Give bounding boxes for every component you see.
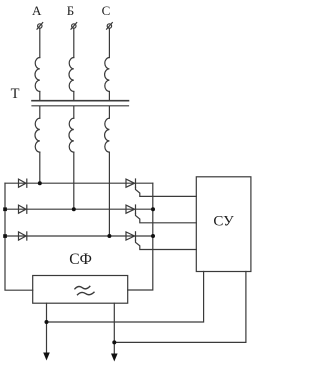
filter symbol inside СФ <box>75 286 94 294</box>
node output right <box>112 340 116 344</box>
control unit block СУ <box>196 177 251 272</box>
wire primary winding 2 to core <box>73 92 75 101</box>
transformer core <box>32 101 129 106</box>
wire core to secondary winding 1 <box>39 106 41 118</box>
node wire2-line2 <box>72 207 76 211</box>
thyristor VS2 <box>126 205 136 213</box>
wire core to secondary winding 2 <box>73 106 75 118</box>
gate wire VS3 <box>136 240 197 249</box>
node output left <box>45 320 49 324</box>
node wire1-line1 <box>38 181 42 185</box>
svg-text:Б: Б <box>67 3 74 18</box>
wire core to secondary winding 3 <box>108 106 110 118</box>
wire terminal A to primary winding 1 <box>39 28 41 57</box>
wire terminal Б to primary winding 2 <box>73 28 75 57</box>
wire СУ output left <box>47 272 204 323</box>
svg-text:С: С <box>102 3 111 18</box>
gate wire VS1 <box>136 187 197 196</box>
transformer T secondary winding 3 <box>105 118 110 152</box>
svg-text:СУ: СУ <box>213 214 234 230</box>
wire secondary 1 down to line 1 <box>39 152 41 183</box>
node wire3-line3 <box>107 234 111 238</box>
svg-text:А: А <box>32 3 42 18</box>
transformer T secondary winding 1 <box>35 118 40 152</box>
wire secondary 2 down to line 2 <box>73 152 75 209</box>
svg-text:Т: Т <box>11 86 20 102</box>
terminal Б <box>71 23 77 30</box>
node left bus line2 <box>3 207 7 211</box>
transformer T primary winding 2 <box>69 58 74 92</box>
wire terminal С to primary winding 3 <box>108 28 110 57</box>
wire СФ output right <box>113 303 115 354</box>
left anode bus wire <box>5 183 33 290</box>
output arrow right <box>111 354 118 362</box>
wire primary winding 3 to core <box>108 92 110 101</box>
wire phase line 2 <box>5 208 153 210</box>
transformer T primary winding 1 <box>35 58 40 92</box>
filter block СФ <box>33 251 128 303</box>
wire phase line 3 <box>5 235 153 237</box>
node bus-line2 <box>151 207 155 211</box>
diode VD2 <box>19 205 27 213</box>
node bus-line3 <box>151 234 155 238</box>
wire СФ output left <box>46 303 48 353</box>
thyristor VS3 <box>126 232 136 240</box>
output arrow left <box>43 353 50 361</box>
transformer T primary winding 3 <box>105 58 110 92</box>
wire phase line 1 <box>5 182 153 184</box>
terminal С <box>107 23 113 30</box>
wire primary winding 1 to core <box>39 92 41 101</box>
transformer T secondary winding 2 <box>69 118 74 152</box>
cathode bus wire <box>128 183 153 290</box>
terminal A <box>37 23 43 30</box>
wire СУ output right <box>114 272 246 343</box>
diode VD1 <box>19 179 27 187</box>
diode VD3 <box>19 232 27 240</box>
thyristor VS1 <box>126 179 136 187</box>
gate wire VS2 <box>136 213 197 222</box>
svg-text:СФ: СФ <box>69 251 92 268</box>
wire secondary 3 down to line 3 <box>108 152 110 236</box>
node left bus line3 <box>3 234 7 238</box>
